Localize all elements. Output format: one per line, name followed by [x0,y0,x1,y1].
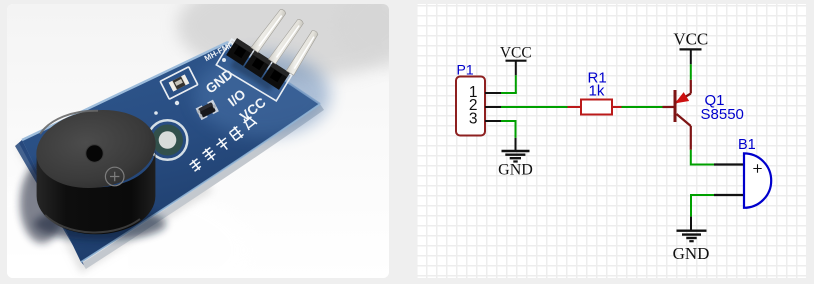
photo vignette far corner [334,0,434,67]
silkscreen box with SMD resistor [160,67,198,99]
schematic grid background [417,4,806,278]
SMD transistor [195,100,219,121]
pin header shadow [233,62,272,87]
wire R1 to Q1 base [622,106,663,108]
B1 bottom terminal stub [714,194,743,196]
white schematic panel [417,4,806,278]
via dots [154,58,226,115]
wire VCC right drop [690,64,692,80]
silkscreen label GND [203,66,236,96]
transistor Q1 collector lead [690,126,692,150]
PCB board top surface [22,42,320,262]
board drop shadow [22,146,210,266]
connector P1 [456,77,485,136]
photo vignette top right [177,0,413,80]
transistor Q1 emitter arrow [676,93,688,102]
svg-text:P1: P1 [457,62,474,78]
wire pin2 to R1 [501,106,568,108]
svg-text:3: 3 [469,111,478,128]
svg-text:B1: B1 [738,137,756,153]
wire pin1 to VCC [501,92,517,94]
transistor Q1 emitter diagonal [676,94,691,103]
buzzer plus marking [105,167,124,186]
PCB sheen upper right [194,53,330,137]
buzzer cylinder side [37,149,156,234]
resistor R1 left lead [568,106,582,108]
pin header plastic cube 2 [244,50,272,78]
pin header silkscreen box [216,39,291,101]
buzzer bottom rim light [45,215,140,232]
transistor Q1 base bar [674,90,677,122]
svg-text:GND: GND [498,162,533,179]
pin 1 stub [485,92,501,94]
VCC symbol right [673,30,708,65]
VCC symbol left [500,44,532,75]
svg-text:1k: 1k [589,83,605,100]
svg-text:S8550: S8550 [701,106,744,123]
transistor Q1 emitter lead [690,80,692,94]
pin header plastic cube 1 [226,38,254,66]
mounting hole [148,120,188,160]
photo light bottom left [0,180,250,284]
resistor R1 right lead [612,106,622,108]
silkscreen label I/O [225,86,248,109]
PCB side dark band [19,140,84,265]
buzzer side shadow left [20,163,64,243]
header pin 1 [251,9,286,52]
svg-text:GND: GND [673,244,710,263]
white photo panel [7,4,389,278]
silkscreen label MH-FMD [203,40,236,64]
resistor R1 body [581,100,612,115]
ground GND left [498,138,533,179]
silkscreen label VCC [237,95,269,125]
pin header plastic cube 3 [262,62,290,90]
PCB side thickness lower-right [84,107,322,266]
wire VCC left drop [515,75,517,93]
pin 3 stub [485,120,501,122]
B1 plus polarity mark [753,164,761,172]
PCB bottom-right edge rim light [81,104,320,262]
PCB top-left edge rim light [22,42,228,140]
buzzer top face [31,103,161,196]
ground GND right [673,217,710,263]
transistor Q1 collector diagonal [677,114,691,126]
header pin 3 [286,31,318,76]
transistor Q1 base lead [663,106,675,108]
pin 2 stub [485,106,501,108]
buzzer top rim highlight [40,111,98,134]
PCB top-right edge chamfer [228,42,320,104]
svg-text:VCC: VCC [500,44,532,61]
header pin 2 [269,19,304,64]
buzzer sound hole [86,145,103,162]
PCB side thickness [15,140,86,268]
B1 top terminal stub [714,163,743,165]
silkscreen chinese text (stroke glyphs) [188,114,257,172]
svg-text:VCC: VCC [673,30,708,49]
buzzer shadow on board [34,208,166,240]
wire B1 to GND right [691,195,714,217]
buzzer B1 body [744,153,771,207]
wire pin3 to GND [501,121,516,138]
photo background [7,4,389,278]
wire Q1 collector to B1 [691,150,714,165]
